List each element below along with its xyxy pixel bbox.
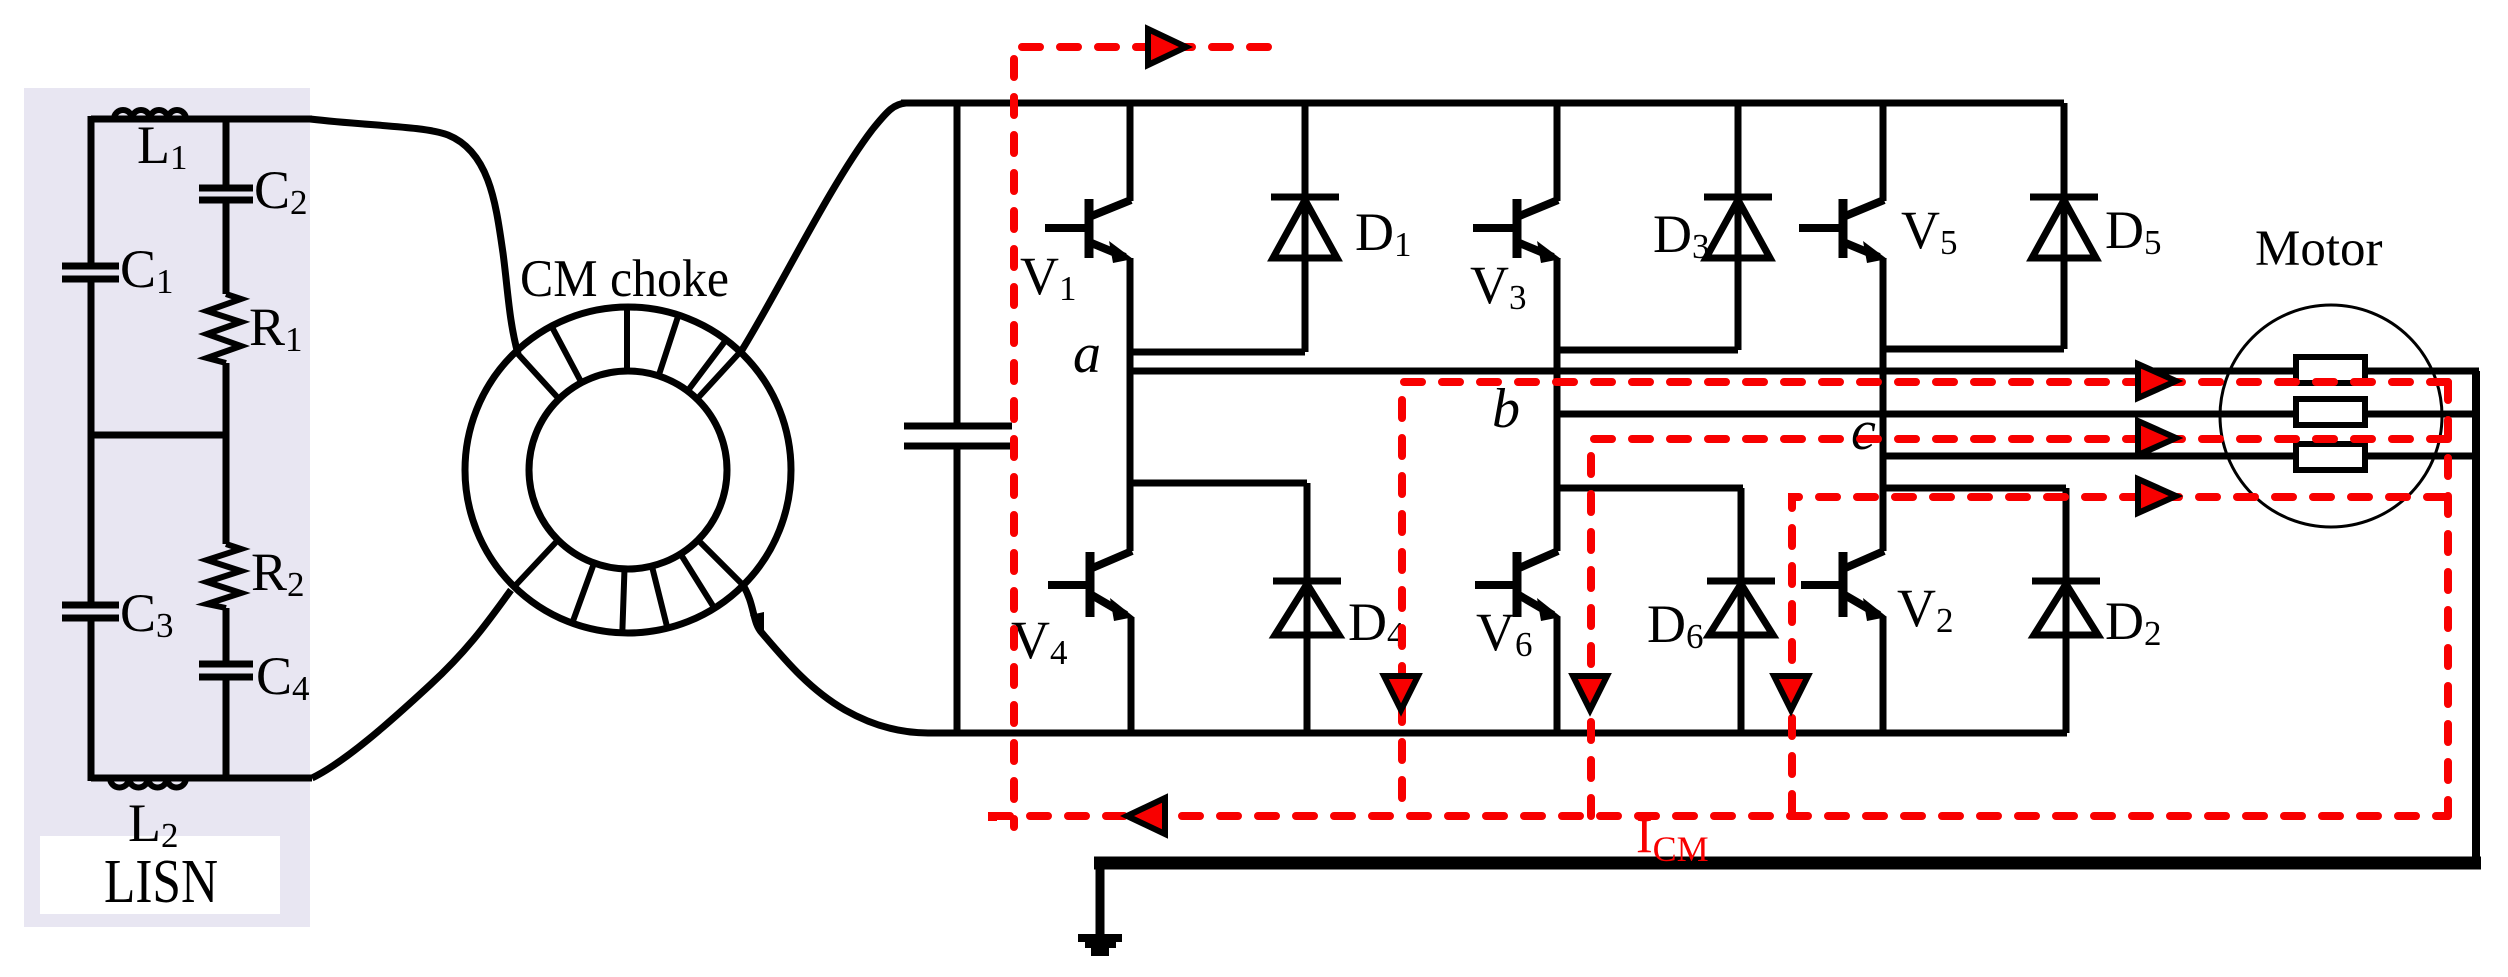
- node a lower wire: [1131, 480, 1307, 487]
- diode D2: [2032, 488, 2100, 733]
- LISN label: [40, 836, 280, 914]
- red arrow right phase a: [2138, 364, 2176, 398]
- LISN enclosure: [24, 88, 310, 927]
- svg-text:b: b: [1492, 378, 1520, 440]
- diode D3: [1704, 103, 1772, 350]
- winding arrow on choke exit wire: [750, 612, 764, 640]
- wire phase c: [1883, 453, 2479, 460]
- red arrow left bottom: [1127, 798, 1165, 834]
- wire top DC bus: [901, 100, 2064, 107]
- transistor V6: [1475, 551, 1561, 733]
- choke winding marks bottom: [572, 554, 714, 633]
- capacitor C3: [62, 605, 119, 618]
- svg-text:CM choke: CM choke: [520, 250, 729, 308]
- svg-text:c: c: [1851, 400, 1876, 462]
- node b lower wire: [1557, 485, 1743, 492]
- ground lead: [1096, 863, 1105, 936]
- diode D1: [1271, 103, 1339, 352]
- red arrow right phase c: [2138, 479, 2176, 513]
- svg-text:Motor: Motor: [2255, 221, 2383, 277]
- transistor V5: [1799, 103, 1887, 551]
- node c upper wire: [1883, 346, 2064, 353]
- wire LISN bottom: [91, 775, 312, 782]
- wire choke to bottom bus: [743, 585, 928, 733]
- red arrow right top: [1148, 29, 1186, 65]
- wire bottom DC bus: [928, 730, 2067, 737]
- CM choke toroid core: [465, 307, 791, 633]
- choke winding marks top: [552, 307, 727, 391]
- red arrow down on loop 3: [1573, 676, 1607, 710]
- svg-text:a: a: [1073, 323, 1101, 385]
- node c lower wire: [1883, 485, 2066, 492]
- node a upper wire: [1130, 349, 1305, 356]
- red CM loop 1 path: [1014, 47, 1268, 827]
- red dot start: [988, 812, 997, 821]
- transistor V4: [1048, 551, 1134, 733]
- wire DC link rail: [954, 103, 961, 733]
- transistor V3: [1473, 103, 1561, 551]
- capacitor DC link: [904, 426, 1012, 446]
- motor winding c: [2296, 444, 2365, 470]
- red CM right vertical: [2444, 382, 2452, 816]
- capacitor C1: [62, 266, 119, 279]
- inductor L2: [110, 778, 186, 788]
- red arrow down on loop 2: [1384, 676, 1418, 710]
- diode D4: [1273, 483, 1341, 733]
- wire phase b: [1557, 411, 2479, 418]
- wire LISN top to choke: [310, 119, 518, 354]
- motor winding b: [2296, 399, 2365, 425]
- wire LISN bottom to choke: [312, 590, 511, 778]
- transistor V1: [1045, 103, 1133, 551]
- motor winding a: [2296, 357, 2365, 383]
- red CM bottom horizontal: [992, 812, 2448, 820]
- wire LISN right vertical: [223, 116, 230, 781]
- wire LISN top: [91, 116, 312, 123]
- red CM loop 2 path: [1402, 382, 2448, 816]
- svg-text:LISN: LISN: [104, 848, 218, 916]
- motor circle: [2220, 305, 2442, 527]
- red arrow right phase b: [2138, 421, 2176, 455]
- red CM loop 4 path: [1792, 497, 2445, 816]
- wire motor right vertical: [2472, 371, 2480, 863]
- diode D6: [1707, 488, 1775, 733]
- wire LISN left vertical: [88, 116, 95, 781]
- wire phase a: [1130, 368, 2479, 375]
- choke entry chords: [513, 350, 743, 588]
- ground plane wire: [1094, 857, 2481, 870]
- red CM loop 3 path: [1591, 439, 2448, 816]
- transistor V2: [1801, 551, 1887, 733]
- resistor R2: [207, 544, 241, 608]
- red arrow down on loop 4: [1774, 676, 1808, 710]
- wire choke to top bus: [742, 103, 906, 350]
- resistor R1: [207, 294, 241, 363]
- capacitor C4: [199, 664, 253, 677]
- ground symbol: [1078, 934, 1122, 942]
- wire LISN middle horizontal: [91, 432, 226, 439]
- diode D5: [2030, 103, 2098, 349]
- capacitor C2: [199, 188, 253, 200]
- node b upper wire: [1557, 347, 1738, 354]
- inductor L1: [114, 110, 186, 119]
